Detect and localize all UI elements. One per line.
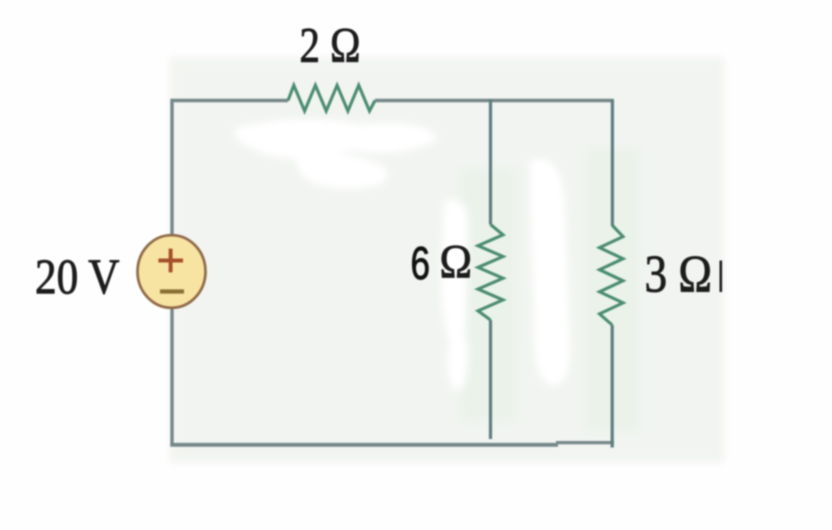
resistor R1 2ohm zigzag <box>288 85 375 111</box>
resistor R2 6ohm zigzag <box>478 225 503 321</box>
svg-text:2 Ω: 2 Ω <box>300 17 361 73</box>
wire left lower <box>170 307 173 446</box>
voltage source plus sign <box>158 249 183 273</box>
svg-text:3 Ω: 3 Ω <box>645 246 713 304</box>
whiteout patch between branches <box>530 158 570 385</box>
wire right branch upper <box>611 99 614 226</box>
background tint near 3ohm branch <box>588 150 638 430</box>
cropped stroke after 3 ohm <box>720 261 723 293</box>
wire middle branch upper <box>489 99 492 225</box>
whiteout patch left of 6ohm <box>441 199 468 343</box>
whiteout patch below 6ohm <box>447 329 468 390</box>
voltage source minus sign <box>160 289 184 293</box>
wire top <box>172 99 288 102</box>
background tint region <box>170 58 724 462</box>
wire right branch lower <box>611 325 614 448</box>
whiteout patch under top wire <box>234 119 438 159</box>
svg-text:Ω: Ω <box>440 236 473 289</box>
background tint near 6ohm branch <box>462 170 514 420</box>
wire bottom <box>170 443 558 447</box>
wire middle branch lower <box>489 320 492 439</box>
whiteout patch arrow area <box>297 153 388 189</box>
wire top right <box>375 99 612 102</box>
wire left upper <box>170 99 173 236</box>
voltage source V1 circle <box>138 235 206 308</box>
wire bottom right segment <box>556 441 614 444</box>
svg-text:20 V: 20 V <box>35 248 120 304</box>
svg-text:6: 6 <box>411 237 431 289</box>
resistor R3 3ohm zigzag <box>600 226 624 326</box>
